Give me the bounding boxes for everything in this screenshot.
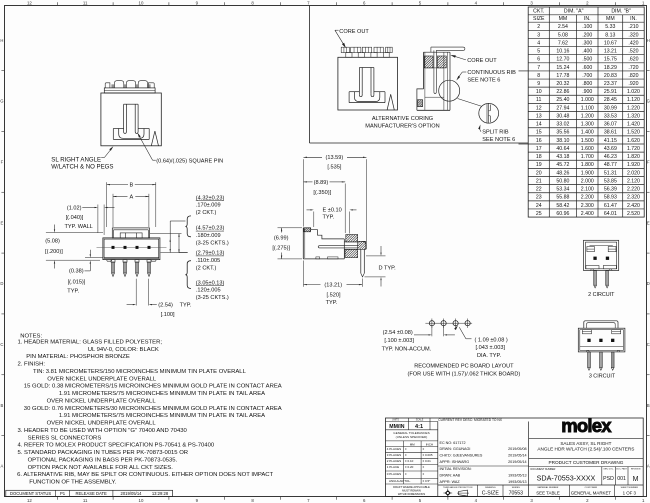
svg-text:2 PLACES: 2 PLACES [387,459,401,463]
svg-text:1.220: 1.220 [627,105,640,111]
svg-text:14: 14 [536,122,542,128]
svg-text:(2.54 ±0.08): (2.54 ±0.08) [383,330,413,336]
svg-text:2019/05/14: 2019/05/14 [508,454,526,458]
svg-text:SPLIT RIB: SPLIT RIB [482,130,509,136]
svg-text:53.34: 53.34 [556,187,569,193]
svg-text:18.29: 18.29 [604,65,617,71]
svg-text:MM: MM [606,16,615,22]
svg-text:SIZE: SIZE [533,16,545,22]
svg-text:A: A [1,464,4,469]
svg-text:3 PLACES: 3 PLACES [387,453,401,457]
side bent pin vertical [358,241,366,249]
svg-text:(5.08): (5.08) [45,239,60,245]
svg-text:E: E [647,220,650,225]
svg-text:4. REFER TO MOLEX PRODUCT SPEC: 4. REFER TO MOLEX PRODUCT SPECIFICATION … [18,443,215,449]
view2 feet [107,260,113,262]
side pins hatched [346,235,358,242]
svg-text:[(.040)]: [(.040)] [66,215,84,221]
svg-text:58.42: 58.42 [556,203,569,209]
svg-text:33.02: 33.02 [556,122,569,128]
svg-text:A: A [130,195,134,201]
svg-text:1.920: 1.920 [627,162,640,168]
svg-text:23: 23 [536,195,542,201]
svg-text:15.24: 15.24 [556,65,569,71]
svg-text:1.000: 1.000 [581,97,594,103]
svg-text:1.420: 1.420 [627,122,640,128]
svg-text:1. HEADER MATERIAL: GLASS FILL: 1. HEADER MATERIAL: GLASS FILLED POLYEST… [18,340,163,346]
svg-text:56.39: 56.39 [604,187,617,193]
dim 0.38 [85,257,103,259]
svg-text:GEN. DOC.: GEN. DOC. [603,469,614,471]
svg-text:G: G [647,99,650,104]
svg-text:± 0.01: ± 0.01 [423,459,432,463]
view1 body [101,93,161,146]
dim 2.54 typ [135,279,137,306]
document status bar [6,490,173,496]
svg-text:8: 8 [537,73,540,79]
svg-text:2 CIRCUIT: 2 CIRCUIT [588,292,615,298]
svg-text:.180±.009: .180±.009 [196,233,221,239]
svg-text:UL 94V-0, COLOR: BLACK: UL 94V-0, COLOR: BLACK [88,347,159,353]
view2 right dims [150,233,182,235]
svg-text:16: 16 [536,138,542,144]
view4 interior lines [425,67,444,69]
svg-text:.500: .500 [582,57,592,63]
svg-text:1.500: 1.500 [581,138,594,144]
view3 body [338,57,398,110]
3ckt pins below [588,352,591,368]
svg-text:(2.54): (2.54) [158,303,173,309]
svg-text:ANGULAR TOL.: ANGULAR TOL. [389,479,411,483]
svg-text:OVER NICKEL UNDERPLATE OVERALL: OVER NICKEL UNDERPLATE OVERALL [47,421,157,427]
svg-text:4: 4 [537,40,540,46]
svg-text:10.16: 10.16 [556,49,569,55]
svg-text:.820: .820 [628,73,638,79]
svg-text:12: 12 [27,1,32,6]
svg-text:[(.200)]: [(.200)] [45,249,63,255]
third angle symbol 2 (cone) [457,490,469,496]
svg-text:1.800: 1.800 [581,162,594,168]
svg-text:18: 18 [536,154,542,160]
svg-text:5: 5 [537,49,540,55]
left tolerance section [437,422,439,497]
svg-text:6: 6 [537,57,540,63]
svg-text:DRWN: GGUNAGI: DRWN: GGUNAGI [440,447,471,451]
svg-text:5.33: 5.33 [605,24,615,30]
svg-text:2019/05/14: 2019/05/14 [121,491,143,496]
svg-text:M: M [633,476,639,483]
svg-text:1993/05/13: 1993/05/13 [508,474,526,478]
svg-text:60.96: 60.96 [556,211,569,217]
svg-text:CURRENT REV DESC: MIGRATED TO: CURRENT REV DESC: MIGRATED TO NX [438,418,502,422]
svg-text:SEE NOTE 6: SEE NOTE 6 [467,77,500,83]
svg-text:TYP.: TYP. [323,215,335,221]
svg-text:1 PLACE: 1 PLACE [387,465,399,469]
svg-text:11: 11 [83,1,88,6]
svg-text:D TYP.: D TYP. [379,266,397,272]
svg-text:38.61: 38.61 [604,130,617,136]
dim B [106,182,108,227]
svg-text:20.32: 20.32 [556,81,569,87]
svg-text:1.100: 1.100 [581,105,594,111]
svg-text:2.300: 2.300 [581,203,594,209]
svg-text:17: 17 [536,146,542,152]
svg-text:1.700: 1.700 [581,154,594,160]
svg-text:CORE OUT: CORE OUT [339,29,369,35]
svg-text:EC NO: 617172: EC NO: 617172 [440,441,466,445]
2ckt bottom notches [591,269,594,271]
svg-text:WITHIN DIMENSIONS: WITHIN DIMENSIONS [398,492,426,496]
svg-text:36.07: 36.07 [604,122,617,128]
dim A [112,194,114,227]
svg-text:.700: .700 [582,73,592,79]
view1 center slot [124,103,139,105]
svg-text:SHEET NUMBER: SHEET NUMBER [621,487,639,489]
svg-text:OVER NICKEL UNDERPLATE OVERALL: OVER NICKEL UNDERPLATE OVERALL [47,376,157,382]
svg-text:23.37: 23.37 [604,81,617,87]
svg-text:3 CIRCUIT: 3 CIRCUIT [589,373,616,379]
title block header strip (left section) [386,421,438,423]
svg-text:DRAWING: DRAWING [485,486,496,489]
svg-text:± 0.005: ± 0.005 [423,453,433,457]
svg-text:MANUFACTURER'S OPTION: MANUFACTURER'S OPTION [365,124,439,130]
view4 left latch arm [417,89,424,110]
svg-text:2.220: 2.220 [627,187,640,193]
svg-text:.120±.005: .120±.005 [196,288,221,294]
svg-text:15: 15 [536,130,542,136]
svg-text:INCH: INCH [426,442,433,446]
svg-text:[.520]: [.520] [327,293,341,299]
svg-text:48.26: 48.26 [556,170,569,176]
svg-text:24: 24 [536,203,542,209]
svg-text:± 0.10: ± 0.10 [405,459,414,463]
view1 bottom recess [113,128,123,130]
svg-text:25.40: 25.40 [556,97,569,103]
svg-text:2.000: 2.000 [581,178,594,184]
sales title [529,438,644,440]
svg-text:1.91 MICROMETERS/75 MICROINCHE: 1.91 MICROMETERS/75 MICROINCHES MINIMUM … [59,413,265,419]
svg-text:0 PLACES: 0 PLACES [387,472,401,476]
svg-text:53.85: 53.85 [604,178,617,184]
svg-text:H: H [0,38,3,43]
svg-text:43.18: 43.18 [556,154,569,160]
svg-text:38.10: 38.10 [556,138,569,144]
side bottom notches [316,257,320,259]
svg-text:GENERAL MARKET: GENERAL MARKET [571,491,612,496]
third angle symbol 1 [443,489,452,498]
svg-text:28.45: 28.45 [604,97,617,103]
svg-text:2019/05/14: 2019/05/14 [508,460,526,464]
svg-text:12: 12 [536,105,542,111]
svg-text:27.94: 27.94 [556,105,569,111]
pcb dia leader [454,325,458,330]
svg-text:DOCUMENT STATUS: DOCUMENT STATUS [10,491,51,496]
svg-text:± 0.20: ± 0.20 [405,465,414,469]
svg-text:(13.59): (13.59) [326,155,344,161]
svg-text:IN.: IN. [584,16,591,22]
view3 slot [359,67,374,69]
svg-text:PIN MATERIAL: PHOSPHOR BRONZE: PIN MATERIAL: PHOSPHOR BRONZE [26,354,130,360]
svg-text:F: F [1,159,4,164]
svg-text:.800: .800 [582,81,592,87]
svg-text:1 OF 3: 1 OF 3 [623,491,637,496]
svg-text:13: 13 [536,113,542,119]
view: 3 circuit [578,328,625,352]
svg-text:TYP. NON-ACCUM.: TYP. NON-ACCUM. [382,347,432,353]
svg-text:64.01: 64.01 [604,211,617,217]
svg-text:ALTERNATIVE CORING: ALTERNATIVE CORING [372,116,433,122]
svg-text:± 0.5°: ± 0.5° [423,479,432,483]
svg-text:UNITS: UNITS [392,420,399,422]
svg-text:MUST REMAIN: MUST REMAIN [402,489,421,493]
svg-text:2.520: 2.520 [627,211,640,217]
svg-text:(2 CKT.): (2 CKT.) [196,265,217,271]
svg-text:.110±.005: .110±.005 [196,258,220,264]
svg-text:7: 7 [537,65,540,71]
svg-text:19: 19 [536,162,542,168]
svg-text:2.54: 2.54 [558,24,568,30]
svg-text:6. ALTERNATIVE RIB, MAY BE SPI: 6. ALTERNATIVE RIB, MAY BE SPILT OR CONT… [17,472,273,478]
svg-text:[.100]: [.100] [161,312,175,318]
svg-text:.900: .900 [582,89,592,95]
svg-text:2.100: 2.100 [581,187,594,193]
svg-text:.170±.009: .170±.009 [196,203,221,209]
svg-text:2.020: 2.020 [627,170,640,176]
svg-text:TYP.: TYP. [180,303,192,309]
svg-text:SEE NOTE 6: SEE NOTE 6 [482,137,515,143]
svg-text:22: 22 [536,187,542,193]
svg-text:1.900: 1.900 [581,170,594,176]
svg-text:[(.275)]: [(.275)] [272,246,290,252]
svg-text:APPR: WAZ: APPR: WAZ [440,480,461,484]
svg-text:9: 9 [537,81,540,87]
svg-text:E ±0.10: E ±0.10 [323,208,342,214]
svg-text:(13.21): (13.21) [324,283,342,289]
svg-text:1.320: 1.320 [627,113,640,119]
svg-text:OPTIONAL PACKAGING IN BAGS PER: OPTIONAL PACKAGING IN BAGS PER PK-70873-… [28,457,178,463]
view2 pins below [111,260,115,263]
svg-text:1.820: 1.820 [627,154,640,160]
svg-text:20.83: 20.83 [604,73,617,79]
svg-text:[(.015)]: [(.015)] [68,279,86,285]
split rib detail circle [479,103,499,123]
svg-text:DRAFT WHERE APPLICABLE: DRAFT WHERE APPLICABLE [393,485,430,489]
svg-text:(3-25 CKTS.): (3-25 CKTS.) [196,241,229,247]
svg-text:W/LATCH & NO PEGS: W/LATCH & NO PEGS [51,164,113,171]
svg-text:(2 CKT.): (2 CKT.) [196,210,217,216]
view: 2 circuit [584,240,619,270]
braces [185,216,191,237]
svg-text:12.70: 12.70 [556,57,569,63]
svg-text:C-SIZE: C-SIZE [482,491,500,497]
svg-text:1.400: 1.400 [581,130,594,136]
svg-text:(3.05±0.13): (3.05±0.13) [196,280,225,286]
svg-text:.920: .920 [628,81,638,87]
svg-text:D: D [0,281,3,286]
view4 detail circle [439,80,460,101]
svg-text:DOCUMENT NUMBER: DOCUMENT NUMBER [531,468,556,471]
svg-text:DIA. TYP.: DIA. TYP. [477,353,501,359]
svg-text:10: 10 [139,1,144,6]
svg-text:FUNCTION OF THE ASSEMBLY.: FUNCTION OF THE ASSEMBLY. [29,480,116,486]
view4 center pin [433,50,435,92]
svg-text:41.15: 41.15 [604,138,617,144]
svg-text:[.535]: [.535] [327,165,341,171]
svg-text:PRODUCT CUSTOMER DRAWING: PRODUCT CUSTOMER DRAWING [548,460,623,465]
title block [386,418,644,496]
svg-text:.200: .200 [582,32,592,38]
svg-text:5. STANDARD PACKAGING IN TUBES: 5. STANDARD PACKAGING IN TUBES PER PK-70… [18,450,189,456]
svg-text:A: A [647,464,650,469]
view4 hatched core blocks [424,56,433,68]
svg-text:1.520: 1.520 [627,130,640,136]
svg-text:4:1: 4:1 [415,424,423,430]
svg-text:(2.79±0.13): (2.79±0.13) [196,251,225,257]
svg-text:46.23: 46.23 [604,154,617,160]
pcb dim 2.54 [431,326,433,336]
svg-text:1993/05/13: 1993/05/13 [508,480,526,484]
view2 latch [112,228,149,238]
svg-text:[.100 ±.003]: [.100 ±.003] [384,338,414,344]
svg-text:2.320: 2.320 [627,195,640,201]
svg-text:15.75: 15.75 [604,57,617,63]
3ckt bottom band [580,345,624,347]
svg-text:E: E [1,220,4,225]
svg-text:001: 001 [617,476,626,482]
svg-text:.720: .720 [628,65,638,71]
svg-text:D: D [647,281,650,286]
svg-text:SL RIGHT ANGLE: SL RIGHT ANGLE [51,156,101,163]
svg-text:(4.57±0.23): (4.57±0.23) [196,226,225,232]
svg-text:SERIES: SERIES [512,487,521,489]
svg-text:1.300: 1.300 [581,122,594,128]
svg-text:ANGLE HDR W/LATCH (2.54)/.100: ANGLE HDR W/LATCH (2.54)/.100 CENTERS [537,446,634,451]
svg-text:5.08: 5.08 [558,32,568,38]
svg-text:(0.38): (0.38) [69,269,84,275]
svg-text:(0.64)/(.025) SQUARE PIN: (0.64)/(.025) SQUARE PIN [156,158,223,164]
svg-text:30.48: 30.48 [556,113,569,119]
svg-text:48.77: 48.77 [604,162,617,168]
svg-text:10: 10 [536,89,542,95]
dim 5.08 [46,232,103,234]
svg-text:[(.350)]: [(.350)] [313,190,331,196]
svg-text:8.13: 8.13 [605,32,615,38]
svg-text:2. FINISH:: 2. FINISH: [18,362,46,368]
svg-text:P1: P1 [60,491,66,496]
svg-text:1.600: 1.600 [581,146,594,152]
view3 castellated core-out teeth [341,47,349,52]
dim 1.02 wall [97,205,99,233]
view: SL right angle header, mating-face view [105,83,110,88]
svg-text:CKT.: CKT. [533,8,544,14]
view4 top pin [431,47,465,50]
svg-text:SERIES SL CONNECTORS: SERIES SL CONNECTORS [28,435,102,441]
svg-text:RELEASE DATE: RELEASE DATE [76,491,108,496]
svg-text:TYP. WALL: TYP. WALL [65,224,93,230]
svg-text:DIM. "A": DIM. "A" [564,9,584,15]
dim 13.59 [303,159,305,226]
dim 6.99 [278,227,303,229]
svg-text:OVER NICKEL UNDERPLATE OVERALL: OVER NICKEL UNDERPLATE OVERALL [47,398,157,404]
svg-text:21: 21 [536,178,542,184]
svg-text:[.043 ±.003]: [.043 ±.003] [476,345,506,351]
svg-text:.620: .620 [628,57,638,63]
svg-text:11: 11 [83,498,88,503]
bottom row of title block [438,484,643,486]
svg-text:1.120: 1.120 [627,97,640,103]
svg-text:CONTINUOUS RIB: CONTINUOUS RIB [467,70,516,76]
svg-text:TIN: 3.81 MICROMETERS/150 MICR: TIN: 3.81 MICROMETERS/150 MICROINCHES MI… [33,369,247,375]
svg-text:(4.32±0.23): (4.32±0.23) [196,195,225,201]
svg-text:1.720: 1.720 [627,146,640,152]
svg-text:SALES ASSY, SL RIGHT: SALES ASSY, SL RIGHT [560,441,611,446]
svg-text:DRWN: AAB: DRWN: AAB [440,474,461,478]
svg-text:(UNLESS SPECIFIED): (UNLESS SPECIFIED) [396,435,428,439]
svg-text:70553: 70553 [509,491,524,497]
svg-text:INITIAL REVISION:: INITIAL REVISION: [440,467,472,471]
svg-text:PSD: PSD [603,476,614,482]
svg-text:1.91 MICROMETERS/75 MICROINCHE: 1.91 MICROMETERS/75 MICROINCHES MINIMUM … [59,391,265,397]
svg-text:3: 3 [537,32,540,38]
svg-text:13:29:28: 13:29:28 [152,491,169,496]
dim E [313,212,315,228]
svg-text:C: C [0,342,3,347]
svg-text:30.99: 30.99 [604,105,617,111]
recommended pc board layout [425,322,472,324]
2ckt bottom walls [586,266,599,269]
2ckt pins below [594,271,597,286]
svg-text:50.80: 50.80 [556,178,569,184]
svg-text:33.53: 33.53 [604,113,617,119]
svg-text:TYP.: TYP. [326,300,338,306]
svg-text:35.56: 35.56 [556,130,569,136]
svg-text:.420: .420 [628,40,638,46]
svg-text:10.67: 10.67 [604,40,617,46]
svg-text:2.400: 2.400 [581,211,594,217]
svg-text:SCALE: SCALE [416,419,424,422]
middle ec/approval section [528,422,530,497]
svg-text:.320: .320 [628,32,638,38]
svg-text:IN.: IN. [630,16,637,22]
svg-text:(3-25 CKTS.): (3-25 CKTS.) [196,295,229,301]
svg-text:1.020: 1.020 [627,89,640,95]
svg-text:MATERIAL NUMBER: MATERIAL NUMBER [538,486,559,489]
svg-text:12: 12 [27,498,32,503]
svg-text:30 GOLD: 0.76 MICROMETERS/30 M: 30 GOLD: 0.76 MICROMETERS/30 MICROINCHES… [24,406,282,412]
svg-text:(6.99): (6.99) [274,235,289,241]
svg-text:H: H [647,38,650,43]
svg-text:17.78: 17.78 [556,73,569,79]
view3 triangle [387,94,391,110]
dim 8.89 [344,184,346,234]
svg-text:CHK'D: GJEEVANSURES: CHK'D: GJEEVANSURES [440,454,483,458]
svg-text:MM/IN: MM/IN [389,424,405,430]
svg-text:22.86: 22.86 [556,89,569,95]
svg-text:.400: .400 [582,49,592,55]
svg-text:.600: .600 [582,65,592,71]
section divider lines [309,6,311,144]
svg-text:(1.02): (1.02) [67,205,82,211]
svg-text:B: B [1,403,4,408]
svg-text:OPTION PACK NOT AVAILABLE FOR: OPTION PACK NOT AVAILABLE FOR ALL CKT SI… [28,465,174,471]
3ckt latch bump [584,321,618,328]
svg-text:C: C [647,342,650,347]
svg-text:MM: MM [410,442,415,446]
svg-text:CORE OUT: CORE OUT [467,58,497,64]
svg-text:25: 25 [536,211,542,217]
svg-text:CUSTOMER: CUSTOMER [585,487,598,489]
svg-text:2: 2 [537,24,540,30]
